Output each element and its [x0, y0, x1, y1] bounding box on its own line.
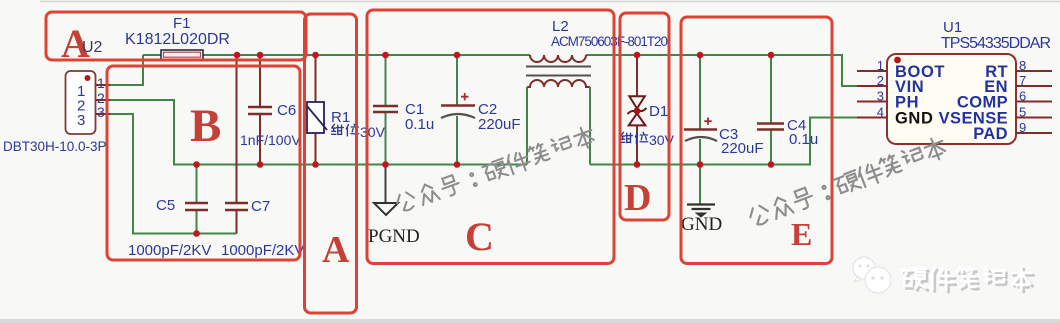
svg-text:DBT30H-10.0-3P: DBT30H-10.0-3P [3, 139, 107, 154]
svg-text:ACM750603F-801T20: ACM750603F-801T20 [551, 34, 668, 49]
annotation box A top [46, 12, 306, 66]
svg-text:0.1u: 0.1u [405, 116, 434, 133]
svg-text:PAD: PAD [973, 125, 1008, 143]
watermark 2 [747, 135, 948, 230]
capacitor C3 leads [699, 55, 701, 165]
svg-text:220uF: 220uF [478, 116, 521, 133]
svg-text:F1: F1 [173, 15, 191, 32]
connector U2 [3, 71, 110, 154]
svg-text:220uF: 220uF [721, 140, 764, 157]
svg-text:1: 1 [877, 58, 884, 73]
wire top rail from fuse to L2 [143, 54, 530, 56]
TVS diode D1 leads [636, 55, 638, 165]
svg-text:A: A [322, 229, 350, 271]
wire pin1 to fuse [110, 55, 143, 85]
svg-text:TPS54335DDAR: TPS54335DDAR [941, 35, 1051, 52]
ground symbol PGND [368, 165, 420, 248]
capacitor C1 leads [385, 55, 387, 165]
junction C6 top rail [257, 52, 264, 59]
TVS diode D1 [621, 96, 675, 148]
svg-text:L2: L2 [552, 18, 569, 35]
svg-text:U2: U2 [82, 39, 103, 56]
wire right ground rail to U1 GND [590, 118, 858, 165]
capacitor C1 [373, 101, 434, 133]
svg-text:E: E [791, 216, 812, 252]
svg-text:30V: 30V [649, 132, 675, 148]
wire top rail from L2 to U1 VIN [586, 55, 858, 86]
varistor R1 leads [315, 55, 317, 165]
svg-text:U1: U1 [943, 19, 962, 36]
annotation box D [620, 13, 669, 220]
svg-text:5: 5 [1019, 105, 1026, 120]
junction R1 top rail [312, 52, 319, 59]
svg-text:C5: C5 [156, 197, 175, 214]
capacitor C4 [757, 117, 818, 148]
svg-text:B: B [190, 100, 221, 152]
junction C3 GND ground rail [697, 161, 704, 168]
svg-text:2: 2 [877, 73, 884, 88]
svg-text:D: D [624, 177, 651, 219]
watermark 1 [394, 125, 596, 216]
junction R1 ground rail [312, 161, 319, 168]
junction D1 top rail [634, 52, 641, 59]
capacitor C7 [221, 198, 304, 259]
svg-text:1nF/100V: 1nF/100V [240, 132, 301, 148]
junction C2 top rail [454, 52, 461, 59]
junction C3 top rail [697, 52, 704, 59]
svg-text:4: 4 [877, 105, 884, 120]
annotation box A tall [305, 14, 357, 313]
capacitor C2 leads [456, 55, 458, 165]
wire pin2 to mid ground rail [110, 100, 527, 165]
svg-text:C7: C7 [251, 198, 270, 215]
svg-text:3: 3 [877, 89, 884, 104]
svg-text:GND: GND [895, 110, 933, 128]
svg-text:3: 3 [97, 104, 105, 120]
svg-text:R1: R1 [331, 109, 350, 126]
junction D1 ground rail [634, 161, 641, 168]
capacitor C7 leads [236, 55, 238, 234]
svg-text:D1: D1 [649, 103, 668, 120]
svg-text:GND: GND [681, 214, 722, 235]
svg-text:0.1u: 0.1u [789, 131, 818, 148]
svg-text:1000pF/2KV: 1000pF/2KV [128, 242, 211, 259]
svg-text:C6: C6 [277, 102, 296, 119]
annotation box C [367, 10, 614, 264]
capacitor C5 [128, 197, 211, 259]
svg-text:7: 7 [1019, 73, 1026, 88]
capacitor C5 leads [196, 165, 198, 234]
svg-text:K1812L020DR: K1812L020DR [125, 31, 230, 48]
junction C4 ground rail [768, 161, 775, 168]
junction C2 ground rail [454, 161, 461, 168]
svg-text:PGND: PGND [368, 226, 420, 247]
svg-text:9: 9 [1019, 120, 1026, 135]
svg-text:6: 6 [1019, 89, 1026, 104]
IC U1 TPS54335DDAR [857, 19, 1052, 144]
wire pin3 to bottom chassis rail [110, 114, 237, 234]
capacitor C6 leads [259, 55, 261, 165]
junction C1 PGND ground rail [382, 161, 389, 168]
svg-text:3: 3 [77, 112, 85, 129]
varistor R1 [307, 102, 386, 140]
svg-text:30V: 30V [360, 124, 386, 140]
fuse F1 [125, 15, 230, 60]
annotation box B [107, 66, 300, 260]
capacitor C4 leads [770, 55, 772, 165]
junction C4 top rail [768, 52, 775, 59]
junction C6 ground rail [257, 161, 264, 168]
common-mode choke L2 [526, 18, 668, 165]
svg-text:1000pF/2KV: 1000pF/2KV [221, 242, 304, 259]
annotation box E [681, 17, 832, 264]
junction C5 ground rail [193, 161, 200, 168]
logo watermark bottom right [853, 257, 1034, 293]
svg-text:C: C [465, 214, 494, 259]
ground symbol GND [681, 165, 722, 236]
capacitor C6 [240, 102, 301, 148]
capacitor C2 polarized [441, 93, 521, 133]
junction C1 top rail [382, 52, 389, 59]
svg-text:1: 1 [97, 75, 105, 91]
junction C5 chassis rail [193, 230, 200, 237]
capacitor C3 polarized [684, 118, 764, 158]
junction C7 top rail [234, 52, 241, 59]
svg-text:8: 8 [1019, 58, 1026, 73]
